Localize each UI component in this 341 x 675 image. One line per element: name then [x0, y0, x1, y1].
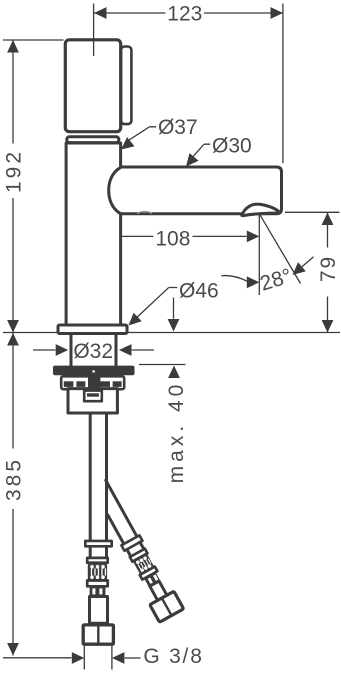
node arrow 79 bottom	[322, 320, 334, 333]
hose ferrule collar	[85, 541, 111, 546]
node arrow 108 right	[247, 231, 259, 243]
diagonal tube	[150, 581, 167, 600]
node arrow 385 bottom	[7, 643, 19, 656]
diagonal ferrule collar	[121, 535, 142, 550]
node arrow O46 leader	[129, 313, 142, 326]
node arrow 123 left	[94, 7, 107, 19]
wire dim 123 extension through handle	[93, 37, 95, 56]
svg-text:385: 385	[3, 457, 26, 501]
node arrow max40 down	[168, 319, 180, 332]
wire G38 right tail	[125, 657, 141, 659]
handle	[65, 40, 120, 132]
diagonal crimp top band	[130, 549, 148, 562]
wire water stream axis	[258, 214, 260, 295]
wire dim 108 left extension	[93, 215, 95, 250]
wire O37 leader	[125, 127, 157, 143]
spout	[119, 167, 282, 214]
diagonal crimp bottom band	[140, 567, 158, 580]
wire 28 degree stream line	[260, 214, 301, 283]
node arrow max40 up	[168, 366, 180, 379]
svg-text:192: 192	[3, 149, 26, 193]
svg-text:Ø32: Ø32	[73, 340, 113, 363]
crimp fitting body	[88, 564, 107, 580]
svg-text:28°: 28°	[257, 264, 294, 295]
wire dim 108 line	[94, 235, 246, 237]
svg-text:Ø30: Ø30	[212, 135, 252, 158]
node arrow G38 right	[112, 652, 125, 664]
crimp slot band	[90, 587, 106, 597]
crimp fitting top band	[87, 558, 108, 563]
node arrow 385 top	[7, 333, 19, 346]
wire handle top extension	[3, 39, 64, 41]
vertical hose	[90, 415, 106, 540]
svg-text:Ø37: Ø37	[158, 116, 198, 139]
aerator	[242, 204, 280, 216]
diagonal crimp body	[133, 554, 154, 574]
wire dim 192 line	[12, 40, 14, 333]
wire dim 79 line	[327, 213, 329, 333]
escutcheon	[58, 325, 127, 334]
svg-text:108: 108	[155, 228, 190, 251]
wire dim O32 tails	[33, 349, 154, 351]
wire diagonal hose edges	[93, 480, 137, 544]
diagonal hose assembly	[87, 477, 184, 622]
node arrow O46 stream	[247, 276, 259, 288]
svg-text:max. 40: max. 40	[165, 381, 188, 484]
wire dim 123 left extension (axis)	[93, 4, 95, 38]
node arrow 192 top	[7, 40, 19, 53]
aerator inner seam arc	[138, 211, 152, 213]
wire bottom reference line	[3, 657, 72, 659]
node arrow O37 leader	[121, 137, 135, 149]
svg-text:123: 123	[167, 3, 202, 26]
wire 28 leader	[302, 257, 314, 267]
handle side lever	[121, 47, 131, 125]
wire dim 123 line	[94, 12, 283, 14]
wire dim 79 top extension	[285, 211, 340, 213]
mounting block	[68, 389, 117, 413]
wire max40 bottom reference	[139, 364, 186, 366]
wire O30 leader	[192, 144, 210, 157]
diagonal end nut	[150, 591, 184, 622]
node arrow O32 right	[119, 344, 132, 356]
wire dim 123 right extension	[282, 4, 284, 164]
hose hex nut	[83, 625, 113, 644]
node arrow O32 left	[56, 344, 68, 356]
wire O46 stream leader	[222, 276, 248, 282]
hose nipple	[90, 597, 108, 624]
node arrow G38 left	[72, 652, 85, 664]
node arrow 28 leader	[293, 262, 306, 275]
wire dim 385 line	[12, 333, 14, 656]
node arrow 123 right	[271, 7, 284, 19]
wire diagonal short section	[127, 542, 144, 556]
hose short section	[90, 548, 106, 557]
collar ring	[67, 137, 119, 143]
wire max40 upper line	[173, 298, 175, 319]
crimp fitting bottom band	[87, 581, 108, 587]
svg-text:G 3/8: G 3/8	[143, 645, 203, 668]
body	[66, 143, 121, 332]
hex band	[61, 376, 124, 389]
shank O32	[70, 335, 118, 366]
diagonal slot band	[144, 573, 160, 587]
node arrow 108 left	[94, 231, 107, 243]
serrated lock nut	[53, 366, 135, 376]
svg-text:Ø46: Ø46	[179, 280, 219, 303]
wire mounting surface line	[3, 332, 340, 334]
wire O46 leader	[136, 288, 177, 319]
node arrow 79 top	[322, 213, 334, 226]
node arrow 192 bottom	[7, 320, 19, 333]
node arrow O30 leader	[186, 153, 199, 166]
svg-text:79: 79	[317, 255, 340, 282]
wire G38 extension lines	[84, 646, 112, 670]
center tab	[88, 377, 100, 393]
